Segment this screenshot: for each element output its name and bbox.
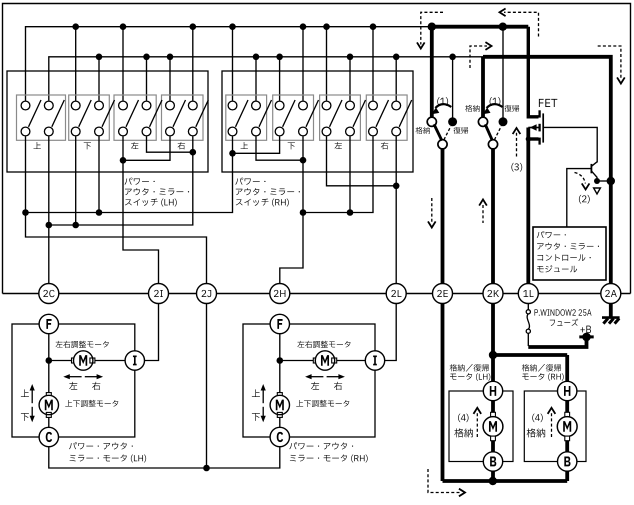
- junction: [229, 23, 236, 30]
- wire line2 from LH right-right: [49, 136, 193, 225]
- retract/return motor (RH) box: [524, 391, 586, 462]
- label fukki R: [505, 105, 520, 112]
- motor M1 left terminal: [313, 358, 318, 363]
- label LR adjust motor: [297, 341, 350, 348]
- wire rail2 drop x=170: [169, 57, 171, 101]
- connector pin 2K: [483, 284, 503, 304]
- wire net 2L : RH right-right down to 2L: [395, 136, 397, 283]
- indicator arrow (2) dashed: [575, 173, 586, 184]
- connector C: [39, 427, 58, 446]
- label kakuno: [454, 428, 473, 437]
- label LH line2: [125, 188, 189, 195]
- power outer mirror control module box: [533, 227, 606, 280]
- wire line to RH right-left: [303, 136, 373, 212]
- power outer mirror switch (LH) box: [7, 71, 208, 172]
- wire rail2 drop x=350: [349, 57, 351, 101]
- motor M1 right terminal: [332, 358, 337, 363]
- connector pin 2C: [39, 284, 59, 304]
- junction: [203, 465, 210, 472]
- wire thick ground rail2 right part to 2A: [483, 57, 611, 284]
- switch contact pair LH-1: [44, 101, 53, 110]
- label (1) L: [437, 97, 448, 106]
- wire thick B down to bus: [565, 471, 569, 481]
- flow arrow top down: [421, 12, 443, 44]
- label retract/return: [522, 364, 561, 371]
- retract motion arrow (4): [476, 413, 478, 438]
- connector F: [39, 314, 58, 333]
- label fuse jp: [550, 319, 578, 326]
- actuate arrow (1) R: [487, 104, 503, 108]
- label 右: [381, 142, 388, 149]
- switch blade solid: [485, 124, 492, 140]
- label fukki L: [454, 127, 469, 134]
- wire thick common R to 2K: [491, 149, 495, 284]
- wire thick source stub: [528, 137, 538, 140]
- module label line1: [537, 231, 566, 238]
- connector pin 2A: [601, 284, 621, 304]
- changeover switch L return contact (closed): [448, 117, 457, 126]
- switch blade solid: [434, 124, 442, 140]
- wire M1 to I: [95, 360, 125, 362]
- junction: [526, 136, 531, 141]
- junction: [22, 209, 29, 216]
- retract motor M: [483, 417, 503, 437]
- switch cell box 下: [69, 95, 110, 140]
- junction: [499, 23, 507, 31]
- wire rail1 drop x=232: [232, 27, 234, 101]
- wire thick M to B: [565, 441, 569, 452]
- wire rail2 drop x=256: [255, 57, 257, 101]
- up-down motion arrow: [31, 390, 33, 404]
- label power outer mirror switch LH line1: [125, 178, 155, 185]
- switch contact pair LH-3: [95, 101, 104, 110]
- junction: [489, 477, 497, 485]
- connector row bus edge: [3, 293, 631, 295]
- wire thin drop to return contact L: [452, 57, 454, 118]
- wire gate line to transistor: [543, 127, 597, 162]
- base drive wire from module: [567, 169, 592, 227]
- wire thick feed rail1 right part: [432, 25, 529, 29]
- junction: [428, 23, 436, 31]
- wire down to UD motor: [279, 361, 281, 393]
- connector pin 2L: [386, 284, 406, 304]
- wire rail2 drop x=280: [279, 57, 281, 101]
- label down: [21, 413, 29, 421]
- FET Q1 channel segments: [538, 110, 540, 117]
- motor M2 bottom terminal: [46, 412, 51, 417]
- wire rail1 drop x=326: [326, 27, 328, 101]
- label power outer mirror motor line1: [289, 442, 353, 449]
- label fuse name: [534, 309, 591, 315]
- switch contact pair LH-0: [21, 101, 30, 110]
- wire LH left-right to right-right: [147, 136, 193, 152]
- module label line2: [537, 243, 599, 250]
- label 上: [33, 142, 40, 149]
- power outer mirror motor (LH) box: [12, 324, 135, 437]
- actuate arrow (1) L: [435, 104, 451, 108]
- junction: [190, 23, 197, 30]
- retract motor M: [557, 417, 577, 437]
- label down: [252, 413, 260, 421]
- power outer mirror switch (RH) box: [222, 71, 413, 172]
- motor M2 (up-down adjust): [270, 395, 289, 414]
- wire net 2C : LH up-right down to 2C: [48, 136, 50, 283]
- wire rail1 drop x=303: [302, 27, 304, 101]
- wire to LR motor: [49, 360, 72, 362]
- label 下: [288, 142, 295, 149]
- FET gate bar: [542, 113, 544, 142]
- wire thick 2E down to bottom bus: [441, 304, 445, 482]
- fuse P.WINDOW2 25A: [527, 304, 529, 310]
- wire line1 to RH up-left: [26, 136, 233, 212]
- wire LH left-left to right-left: [123, 136, 170, 160]
- label +B: [580, 326, 591, 333]
- power outer mirror motor (RH) box: [243, 324, 375, 437]
- connector pin 2H: [270, 284, 290, 304]
- wire rail1 drop x=76: [75, 27, 77, 101]
- connector I: [365, 351, 384, 370]
- label 左: [335, 142, 342, 149]
- ground symbol: [609, 304, 613, 318]
- junction: [46, 357, 53, 364]
- wire thick drop to retract contact L: [430, 27, 434, 118]
- label power outer mirror switch RH line1: [235, 178, 265, 185]
- connector pin 2I: [149, 284, 169, 304]
- wire thick H to M: [491, 401, 495, 413]
- changeover switch L retract contact: [427, 117, 436, 126]
- label RH line3: [236, 199, 289, 207]
- connector pin 1L: [518, 284, 538, 304]
- flow arrow bottom rightward: [428, 469, 460, 493]
- junction: [323, 23, 330, 30]
- junction: [370, 23, 377, 30]
- connector B: [483, 452, 502, 471]
- wire LH down-left drop: [75, 136, 77, 225]
- changeover switch R return contact (closed): [499, 117, 508, 126]
- label 下: [84, 142, 91, 149]
- switch cell box 左: [320, 95, 361, 140]
- power outer mirror switch assembly outline box: [3, 4, 631, 294]
- wire M2 to C: [48, 417, 50, 427]
- junction: [96, 209, 103, 216]
- wire M1 to I: [337, 360, 366, 362]
- switch contact pair RH-0: [228, 101, 237, 110]
- wire thick H feed line: [493, 353, 567, 357]
- wire RH left-right drop: [349, 136, 351, 212]
- wire rail B (net to 1L via FET) thin part: [26, 27, 432, 101]
- switch cell box 上: [17, 95, 66, 140]
- label right: [334, 382, 342, 390]
- wire thick to H: [565, 355, 569, 381]
- label kakuno L: [416, 127, 430, 134]
- switch blade dashed (return position): [444, 126, 451, 140]
- wire thin drop to return contact R: [502, 27, 504, 118]
- label 右: [178, 142, 185, 149]
- transistor Q2 emitter: [591, 171, 597, 181]
- wire LH down-right drop: [98, 136, 100, 212]
- motor M1 left terminal: [72, 358, 77, 363]
- wire F down: [48, 334, 50, 361]
- junction: [120, 157, 127, 164]
- flow arrow 2E downward: [431, 198, 433, 223]
- wire thick common L to 2E: [441, 149, 445, 284]
- connector B: [558, 452, 577, 471]
- switch contact pair LH-6: [166, 101, 175, 110]
- label up: [21, 389, 29, 397]
- flow arrow top-right leftward: [504, 12, 539, 36]
- retract/return motor (LH) box: [449, 391, 513, 462]
- wire net 2H : RH down-right to 2H with jog: [280, 136, 303, 283]
- motor M2 bottom terminal: [277, 412, 282, 417]
- FET label: [539, 99, 557, 107]
- wire net 2J : LH up-left down, line1, line3 to 2J: [26, 136, 207, 283]
- transistor Q2 base bar: [590, 164, 592, 173]
- junction: [167, 54, 174, 61]
- wire thick M to B: [491, 441, 495, 452]
- wire rail2 drop x=99: [98, 57, 100, 101]
- label up: [252, 389, 260, 397]
- flow arrow mid rightward: [470, 46, 487, 68]
- wire M2 to C: [279, 417, 281, 427]
- wire RH left-left to right-right: [327, 136, 397, 185]
- label RH line2: [236, 188, 300, 195]
- label line2: [290, 454, 368, 462]
- retract motion arrow (4): [551, 413, 553, 438]
- junction: [300, 23, 307, 30]
- indicator arrow (3): [516, 132, 518, 157]
- label motor tag: [522, 373, 563, 381]
- connector pin 2J: [197, 284, 217, 304]
- left-right motion arrow: [69, 376, 82, 378]
- module label line3: [537, 254, 590, 261]
- label kakuno: [527, 428, 546, 437]
- junction: [229, 150, 236, 157]
- wire I up to 2L: [385, 304, 397, 361]
- label kakuno R: [465, 105, 479, 112]
- changeover switch R common contact: [488, 140, 497, 149]
- label 上: [241, 142, 248, 149]
- motor M1 right terminal: [90, 358, 95, 363]
- junction: [300, 157, 307, 164]
- junction: [72, 23, 79, 30]
- junction: [190, 149, 197, 156]
- label power outer mirror motor line1: [69, 442, 133, 449]
- left-right motion arrow: [311, 376, 324, 378]
- wire emitter to 2A rail: [597, 180, 611, 182]
- label left: [311, 382, 319, 390]
- junction: [449, 54, 456, 61]
- wire I up to 2I: [145, 304, 159, 361]
- switch contact pair RH-2: [275, 101, 284, 110]
- connector H: [558, 381, 577, 400]
- junction: [143, 54, 150, 61]
- connector H: [483, 381, 502, 400]
- wire thick source down to 1L: [526, 128, 530, 284]
- switch cell box 右: [162, 95, 204, 140]
- emitter junction: [594, 178, 600, 184]
- wire thick H to M: [565, 401, 569, 413]
- junction: [393, 183, 400, 190]
- switch cell box 左: [114, 95, 156, 140]
- label (2): [579, 195, 590, 204]
- label left: [69, 382, 77, 390]
- motor M2 top terminal: [277, 393, 282, 398]
- label (4): [458, 414, 468, 422]
- motor terminal bottom: [565, 436, 570, 441]
- junction: [96, 54, 103, 61]
- up-down motion arrow: [262, 390, 264, 404]
- switch cell box 右: [366, 95, 407, 140]
- label LH line3: [125, 199, 177, 207]
- switch cell box 上: [226, 95, 267, 140]
- wire thick to H: [491, 355, 495, 381]
- label motor tag: [450, 373, 490, 381]
- junction: [253, 54, 260, 61]
- changeover switch R retract contact: [478, 117, 487, 126]
- connector F: [270, 314, 289, 333]
- FET source arrow: [528, 127, 538, 129]
- motor M1 (left-right adjust): [315, 351, 334, 370]
- label (3): [511, 163, 522, 172]
- motor M2 top terminal: [46, 393, 51, 398]
- switch contact pair RH-5: [346, 101, 355, 110]
- connector C: [270, 427, 289, 446]
- switch contact pair LH-5: [142, 101, 151, 110]
- flow arrow right-edge downward: [598, 46, 621, 79]
- switch contact pair RH-6: [369, 101, 378, 110]
- wire rail2 drop x=146: [146, 57, 148, 101]
- motor terminal bottom: [491, 436, 496, 441]
- junction: [347, 54, 354, 61]
- wire to LR motor: [280, 360, 314, 362]
- switch contact pair LH-7: [188, 101, 197, 110]
- switch contact pair RH-3: [299, 101, 308, 110]
- motor M2 (up-down adjust): [39, 395, 58, 414]
- +B terminal: [579, 335, 593, 338]
- switch contact pair RH-7: [392, 101, 401, 110]
- wire rail2 drop x=396: [395, 57, 397, 101]
- switch contact pair LH-2: [71, 101, 80, 110]
- junction: [393, 54, 400, 61]
- switch blade dashed (return position): [494, 126, 501, 140]
- motor M1 (left-right adjust): [74, 351, 93, 370]
- connector I: [125, 351, 144, 370]
- junction: [120, 23, 127, 30]
- wire rail1 drop x=373: [372, 27, 374, 101]
- motor terminal top: [491, 412, 496, 417]
- motor terminal top: [565, 412, 570, 417]
- module label line4: [537, 265, 577, 272]
- flow arrow 2K upward: [482, 205, 484, 223]
- switch contact pair RH-1: [252, 101, 261, 110]
- junction: [46, 222, 53, 229]
- wire rail1 drop x=123: [122, 27, 124, 101]
- wire F down: [279, 334, 281, 361]
- wire down to UD motor: [48, 361, 50, 393]
- junction: [276, 54, 283, 61]
- wire RH up-right to down-right: [256, 136, 303, 160]
- wire thick drop to retract contact R: [481, 57, 485, 118]
- changeover switch L common contact: [438, 140, 447, 149]
- label line2: [70, 454, 147, 462]
- connector pin 2E: [433, 284, 453, 304]
- wire fuse to +B: [527, 333, 529, 346]
- junction: [347, 209, 354, 216]
- wire thick 2K down to H feed: [491, 304, 495, 356]
- wire thick 1L feed upper (drain): [528, 27, 538, 117]
- label LR adjust motor: [56, 341, 109, 348]
- wire rail A (ground net 2A) thin part: [49, 57, 483, 101]
- emitter open arrow: [594, 188, 601, 194]
- label (1) R: [490, 97, 501, 106]
- wire thick bottom bus: [443, 479, 568, 483]
- wire RH up-left to down-left: [233, 136, 280, 153]
- junction: [72, 222, 79, 229]
- label UD adjust motor: [296, 400, 349, 407]
- wire thick B down to bus: [491, 471, 495, 481]
- switch contact pair RH-4: [322, 101, 331, 110]
- label UD adjust motor: [65, 400, 118, 407]
- label (4): [532, 414, 542, 422]
- switch cell box 下: [273, 95, 314, 140]
- wire rail1 drop x=193: [192, 27, 194, 101]
- label retract/return: [450, 364, 489, 371]
- transistor Q2 collector: [591, 162, 597, 167]
- junction: [300, 209, 307, 216]
- label right: [92, 382, 100, 390]
- wire C return line to 2J: [49, 447, 280, 468]
- junction: [277, 357, 284, 364]
- wire net 2I : LH left-left down to 2I: [123, 136, 159, 283]
- junction: [489, 351, 497, 359]
- junction emitter to 2A rail: [607, 177, 615, 185]
- switch contact pair LH-4: [119, 101, 128, 110]
- label 左: [131, 142, 138, 149]
